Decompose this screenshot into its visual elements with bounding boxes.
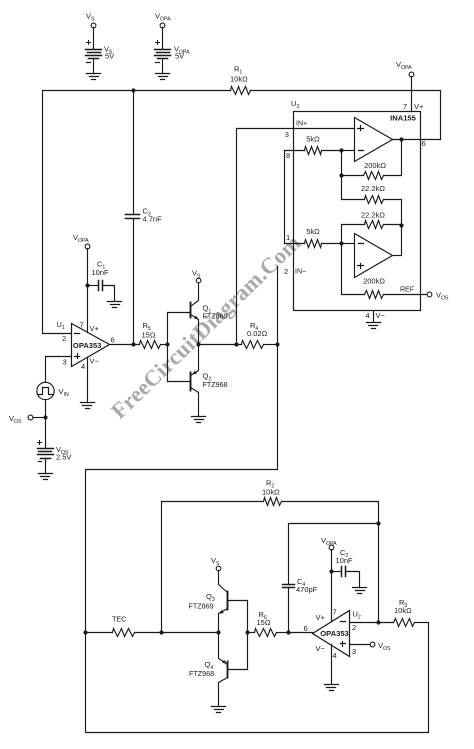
wire INA pin7	[403, 77, 424, 112]
svg-text:3: 3	[352, 647, 356, 656]
label IN+ pin3	[285, 121, 307, 140]
terminal V_OS left	[9, 414, 33, 425]
watermark	[106, 230, 305, 424]
resistor TEC	[86, 615, 219, 637]
svg-text:6: 6	[422, 139, 426, 148]
node	[339, 173, 343, 177]
wire U1 pin4	[87, 358, 89, 403]
ground	[87, 74, 101, 80]
node IN+ tap	[234, 342, 238, 346]
svg-text:REF: REF	[400, 287, 414, 294]
transistor Q2 FTZ968	[168, 345, 228, 417]
svg-text:10nF: 10nF	[92, 268, 110, 277]
node emitter rail	[216, 630, 220, 634]
node	[131, 342, 135, 346]
ground	[212, 707, 226, 713]
wire R2 left	[162, 501, 264, 503]
svg-text:FTZ968: FTZ968	[189, 669, 214, 678]
wire R2 column	[161, 502, 163, 633]
svg-text:200kΩ: 200kΩ	[364, 161, 386, 170]
svg-text:7: 7	[403, 102, 407, 111]
svg-text:TEC: TEC	[112, 615, 126, 624]
wire to A2 inverting	[342, 243, 355, 245]
terminal V_OPA INA pin7	[396, 60, 414, 77]
battery V_OPA 5V	[155, 41, 191, 63]
svg-text:1: 1	[286, 233, 290, 242]
resistor 200k upper	[342, 140, 402, 180]
wire emitter rail to R4	[199, 344, 242, 346]
wire U1 pin2 to rail	[43, 91, 231, 334]
capacitor C3 4.7nF	[126, 207, 163, 224]
wire	[103, 286, 115, 302]
wire	[45, 459, 47, 474]
svg-text:IN+: IN+	[296, 121, 307, 128]
svg-text:FTZ869: FTZ869	[189, 602, 214, 611]
svg-text:6: 6	[304, 624, 308, 633]
wire Q3Q4 base column	[247, 601, 249, 670]
svg-text:15Ω: 15Ω	[142, 331, 156, 340]
wire U2 output	[289, 632, 313, 634]
node	[339, 241, 343, 245]
wire	[133, 219, 135, 345]
svg-text:2: 2	[352, 623, 356, 632]
svg-text:5V: 5V	[175, 52, 184, 61]
node emitter rail Q1Q2	[196, 342, 200, 346]
wire to A1 inverting	[342, 150, 355, 152]
ground	[325, 685, 339, 691]
resistor 5k upper	[285, 135, 342, 160]
node	[83, 630, 87, 634]
power terminal V_S Q1	[192, 269, 201, 283]
terminal V_OPA U2	[321, 536, 337, 550]
svg-text:V−: V−	[316, 644, 326, 653]
wire R4 to INA IN- and load loop	[86, 267, 429, 733]
wire	[264, 344, 278, 346]
wire	[251, 91, 441, 140]
wire R4 to INA IN+	[237, 129, 355, 345]
power terminal V_S	[86, 12, 96, 28]
wire U2 pin3	[350, 644, 370, 646]
resistor R5 15ohm	[140, 321, 161, 349]
ground	[156, 74, 170, 80]
svg-text:10nF: 10nF	[336, 556, 354, 565]
wire U1 pin3	[46, 357, 72, 383]
node	[43, 415, 47, 419]
svg-text:2: 2	[62, 334, 66, 343]
svg-text:V−: V−	[90, 357, 100, 366]
svg-text:5kΩ: 5kΩ	[306, 227, 320, 236]
node	[339, 148, 343, 152]
svg-text:3: 3	[285, 130, 289, 139]
svg-text:10kΩ: 10kΩ	[262, 488, 280, 497]
node	[159, 630, 163, 634]
wire	[93, 59, 95, 74]
node	[286, 630, 290, 634]
wire	[162, 59, 164, 74]
ground	[81, 403, 95, 409]
svg-text:2.5V: 2.5V	[56, 453, 71, 462]
wire U2 pin7	[331, 550, 333, 622]
node	[376, 521, 380, 525]
wire C4 top	[289, 523, 379, 525]
svg-text:7: 7	[80, 321, 84, 330]
capacitor C4 470pF	[283, 524, 318, 633]
svg-text:5kΩ: 5kΩ	[306, 135, 320, 144]
svg-text:4.7nF: 4.7nF	[143, 215, 163, 224]
node	[165, 342, 169, 346]
svg-text:V+: V+	[316, 613, 326, 622]
wire	[45, 400, 47, 418]
wire A2 out	[393, 255, 402, 257]
terminal V_OS REF	[427, 291, 449, 302]
resistor 5k lower	[285, 227, 342, 248]
battery V_S 5V	[86, 41, 115, 63]
svg-text:470pF: 470pF	[296, 585, 318, 594]
resistor 22.2k upper	[342, 184, 402, 204]
resistor R1	[230, 65, 251, 95]
transistor Q3 FTZ869	[189, 571, 248, 633]
svg-text:V+: V+	[90, 324, 100, 333]
svg-text:10kΩ: 10kΩ	[394, 606, 412, 615]
wire A1- column	[341, 151, 343, 200]
op-amp A1 internal	[355, 118, 393, 162]
resistor R6 15ohm	[248, 610, 289, 637]
svg-text:OPA353: OPA353	[73, 341, 102, 350]
svg-text:6: 6	[111, 336, 115, 345]
battery V_OS 2.5V	[38, 441, 72, 462]
op-amp A2 internal	[355, 234, 393, 278]
capacitor C1 10nF	[92, 260, 110, 291]
source V_IN	[37, 382, 69, 399]
svg-text:8: 8	[286, 151, 290, 160]
transistor Q1 FTZ869	[168, 284, 228, 345]
svg-text:10kΩ: 10kΩ	[230, 75, 248, 84]
svg-text:5V: 5V	[105, 52, 114, 61]
svg-text:4: 4	[81, 362, 85, 371]
node	[329, 569, 333, 573]
wire	[162, 28, 164, 49]
svg-text:2: 2	[284, 267, 288, 276]
ground	[108, 302, 122, 308]
wire U1 pin7	[87, 249, 89, 333]
terminal V_OS U2	[370, 641, 391, 652]
resistor R2 10k	[262, 479, 282, 506]
node	[85, 283, 89, 287]
wire right column B	[401, 200, 403, 256]
node U1 output feedback tap	[131, 88, 135, 92]
svg-text:22.2kΩ: 22.2kΩ	[361, 184, 385, 193]
op-amp U2 OPA353	[304, 608, 361, 661]
svg-text:200kΩ: 200kΩ	[363, 277, 385, 286]
wire INA pin4	[366, 311, 386, 323]
label IN- pin2	[284, 267, 306, 276]
wire Q1 Q2 base column	[167, 313, 169, 382]
node IN- tap	[275, 342, 279, 346]
power terminal V_S Q3	[211, 556, 221, 571]
node	[376, 620, 380, 624]
wire R2 right	[282, 502, 379, 623]
wire pins 8-1 gain link	[285, 151, 291, 244]
svg-text:4: 4	[366, 311, 370, 320]
svg-text:OPA353: OPA353	[320, 629, 349, 638]
transistor Q4 FTZ968	[189, 633, 248, 707]
svg-text:FTZ968: FTZ968	[203, 380, 228, 389]
node	[399, 137, 403, 141]
svg-text:22.2kΩ: 22.2kΩ	[361, 211, 385, 220]
instrumentation amp U3 INA155 box	[291, 99, 421, 311]
resistor 22.2k lower	[342, 211, 402, 229]
svg-text:4: 4	[333, 651, 337, 660]
capacitor C2 10nF	[332, 548, 360, 588]
power terminal V_OPA	[155, 12, 171, 28]
op-amp U1 OPA353	[57, 320, 115, 371]
resistor 200k lower REF	[342, 277, 428, 299]
svg-text:INA155: INA155	[390, 113, 417, 122]
wire A1 out to pin6	[393, 139, 441, 148]
ground	[353, 588, 367, 594]
resistor R3 10k	[379, 598, 429, 627]
node	[245, 630, 249, 634]
wire left column B	[341, 225, 343, 295]
wire U2 pin2	[350, 622, 379, 624]
svg-text:V−: V−	[376, 311, 386, 320]
svg-text:0.02Ω: 0.02Ω	[247, 329, 268, 338]
resistor R4 0.02ohm	[242, 321, 268, 349]
svg-text:V+: V+	[414, 102, 424, 111]
wire	[133, 91, 135, 215]
ground	[192, 417, 206, 423]
wire	[93, 28, 95, 49]
svg-text:FTZ869: FTZ869	[203, 312, 228, 321]
ground	[39, 474, 53, 480]
svg-text:IN−: IN−	[295, 269, 306, 276]
wire	[33, 417, 46, 419]
wire U1 output	[110, 344, 140, 346]
svg-text:7: 7	[333, 608, 337, 617]
svg-text:15Ω: 15Ω	[257, 618, 271, 627]
wire	[161, 344, 168, 346]
power terminal V_OPA U1	[73, 233, 90, 249]
wire U2 pin4	[331, 645, 333, 685]
svg-text:3: 3	[63, 358, 67, 367]
ground	[367, 323, 381, 329]
wire	[88, 285, 99, 287]
wire	[45, 418, 47, 449]
node	[399, 223, 403, 227]
